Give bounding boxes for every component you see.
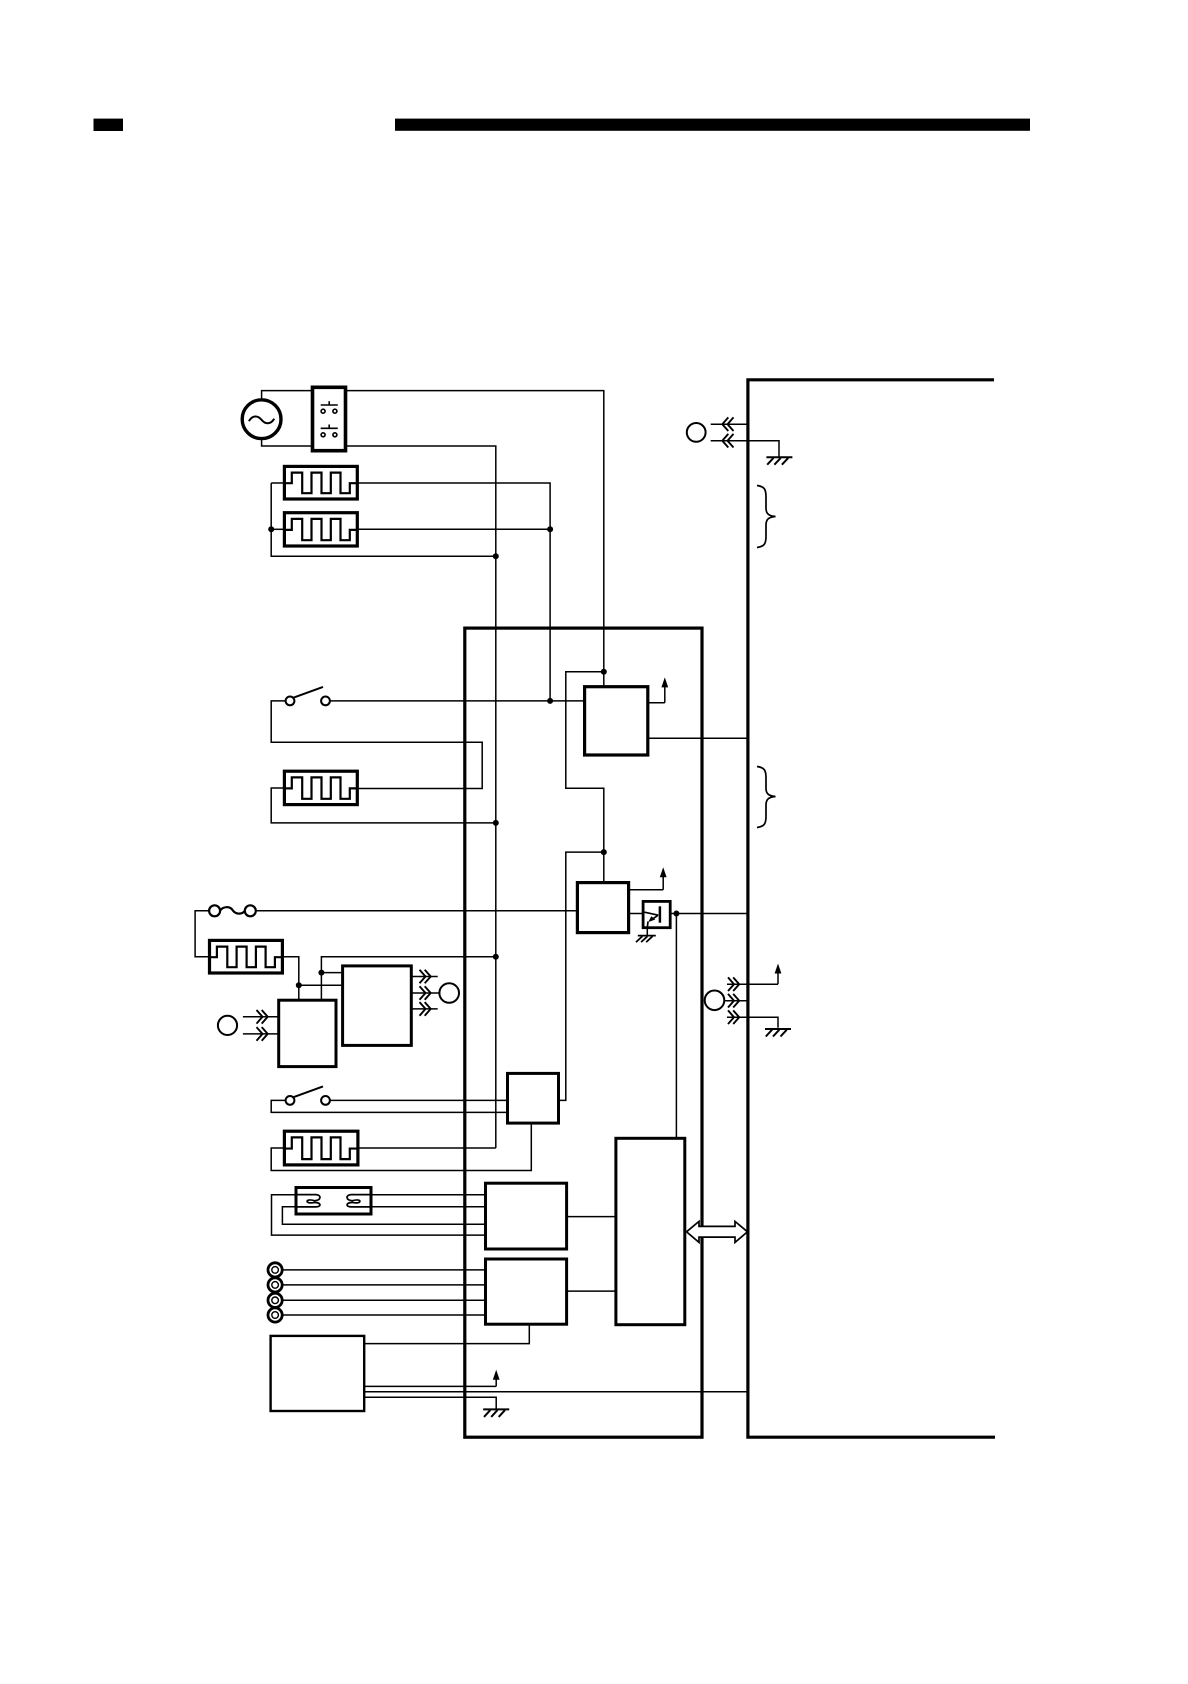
wire sensor branch — [321, 972, 342, 974]
header title bar — [395, 119, 1030, 131]
ground G4 — [483, 1408, 509, 1410]
wire switched neutral (net N) — [346, 446, 496, 1148]
wire node B into U2 — [603, 852, 605, 883]
wire switched hot to node A — [346, 391, 604, 672]
thermal fuse F1 — [209, 905, 220, 916]
wire H2 right — [357, 528, 550, 530]
wire lamp right1 — [371, 1194, 486, 1196]
wire U3 out1 — [411, 976, 437, 978]
logic block U8 — [616, 1138, 685, 1324]
ground G2 — [638, 935, 656, 937]
bus arrow to main board — [687, 1221, 748, 1242]
opto-triac Q1 — [643, 901, 670, 927]
ground G3 — [765, 1028, 791, 1030]
wire P1 to U7 — [282, 1269, 485, 1271]
main switch SW1 (DPST) — [313, 387, 346, 450]
wire U1 to main board — [648, 737, 748, 739]
wire U3 out3 — [411, 1008, 437, 1010]
connector pin P4 — [268, 1308, 282, 1322]
wire H1 left — [271, 482, 284, 484]
driver block U7 — [486, 1259, 567, 1324]
wire U9 to ground — [364, 1397, 496, 1409]
wire node A into U1 — [603, 672, 605, 687]
power block U2 — [577, 883, 628, 933]
heater H4 — [210, 940, 283, 973]
relay block U5 — [508, 1073, 559, 1123]
wire AC hot to switch — [262, 391, 313, 400]
control block U4 — [279, 1000, 336, 1066]
wire J4 pin1 with arrow — [727, 983, 778, 985]
connector pin P2 — [268, 1278, 282, 1292]
lamp LA1 — [296, 1188, 371, 1215]
wire H5 left to U5 — [271, 1123, 531, 1170]
wire J1 pin1 to board — [711, 423, 748, 425]
wire H3 left to net N — [271, 788, 496, 823]
operation block U9 — [271, 1336, 365, 1411]
wire U1 bypass upper — [566, 672, 604, 852]
switch SW3 — [286, 1096, 295, 1105]
wire J4 pin2 — [724, 1000, 748, 1002]
wire J3 in2 — [243, 1033, 279, 1035]
heater H3 — [284, 771, 357, 804]
wire AC neutral to switch — [262, 439, 313, 446]
sensor block U3 — [343, 966, 412, 1046]
wire H2 left — [271, 528, 284, 530]
wire U9 supply with arrow — [364, 1385, 496, 1387]
wire opto out — [670, 913, 748, 915]
wire U3 out2 — [411, 992, 439, 994]
wire net N branch to sensor — [321, 957, 495, 1001]
connector pin P3 — [268, 1293, 282, 1307]
wire P4 to U7 — [282, 1314, 485, 1316]
wire lamp left1 loop — [272, 1195, 486, 1235]
wire H5 right to net N — [358, 1147, 496, 1149]
wire J1 pin2 to ground — [711, 441, 779, 457]
junction opto out — [673, 911, 679, 917]
wire U2 to opto — [629, 913, 644, 915]
main controller board outline (open right) — [748, 380, 995, 1437]
junction H2 left — [268, 526, 274, 532]
wire opto out down to logic — [675, 914, 677, 1139]
wire F1 left to H4 — [195, 911, 209, 957]
junction net-N sensor — [493, 954, 499, 960]
wire P2 to U7 — [282, 1284, 485, 1286]
heater H5 — [284, 1131, 358, 1165]
terminal J4 — [705, 991, 725, 1011]
wire U9 to main board — [364, 1391, 748, 1393]
wire lamp right2 — [371, 1206, 486, 1208]
wire opto cathode to ground — [646, 928, 648, 936]
heater H1 — [284, 466, 357, 499]
wire J4 pin3 to ground — [727, 1017, 778, 1028]
power block U1 — [585, 687, 648, 755]
wire P3 to U7 — [282, 1299, 485, 1301]
junction SW2/net L — [547, 698, 553, 704]
wire heaters left down to net N — [271, 483, 496, 556]
power supply PCB outline — [465, 628, 702, 1437]
terminal J2 — [439, 983, 459, 1003]
wire H4 right down — [282, 957, 298, 1001]
wire H4 branch to sensor block — [299, 984, 343, 986]
AC source PS — [242, 400, 281, 439]
header left tab — [94, 119, 124, 131]
wire F1 right to U2 — [256, 910, 578, 912]
arrow U1 output up — [648, 702, 665, 704]
ground G1 — [766, 456, 792, 458]
junction H2 right on net L — [547, 526, 553, 532]
brace right group 2 — [757, 767, 776, 828]
wire J3 in1 — [243, 1016, 279, 1018]
wire U6 to logic — [567, 1216, 616, 1218]
wire SW3 return — [271, 1100, 507, 1112]
heater H2 — [284, 513, 357, 546]
wire U7 to logic — [567, 1290, 616, 1292]
driver block U6 — [486, 1183, 567, 1249]
wire H1 right to net L — [357, 483, 550, 701]
junction H4 branch — [296, 982, 302, 988]
switch SW2 — [286, 697, 295, 706]
wire SW3 to relay block — [330, 1099, 508, 1101]
brace right group 1 — [757, 486, 776, 548]
wire SW2 to power block — [330, 700, 585, 702]
wire lamp left2 loop — [282, 1207, 485, 1225]
arrow U2 output up — [629, 889, 664, 891]
connector pin P1 — [268, 1263, 282, 1277]
wire SW2 return loop — [271, 701, 482, 789]
wire U9 to U7 — [364, 1324, 529, 1343]
node A junction — [601, 669, 607, 675]
junction node B — [601, 849, 607, 855]
junction heaters-N — [493, 553, 499, 559]
terminal J1 — [687, 423, 706, 442]
wire node B to lamp block — [559, 852, 604, 1100]
junction H3-N — [493, 820, 499, 826]
junction sensor branch — [318, 970, 324, 976]
terminal J3 — [218, 1016, 237, 1035]
